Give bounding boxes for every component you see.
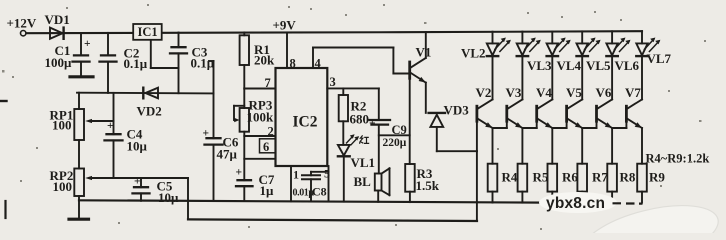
svg-text:VL6: VL6 <box>615 58 640 73</box>
svg-text:V5: V5 <box>566 85 582 100</box>
svg-text:0.1μ: 0.1μ <box>124 56 148 71</box>
svg-text:R5: R5 <box>533 170 549 185</box>
svg-text:R4~R9:1.2k: R4~R9:1.2k <box>646 152 710 166</box>
svg-text:100k: 100k <box>247 110 275 125</box>
svg-text:+: + <box>236 167 243 179</box>
svg-text:100: 100 <box>53 179 73 194</box>
svg-text:C8: C8 <box>312 185 327 199</box>
svg-text:VL2: VL2 <box>461 46 486 61</box>
svg-text:BL: BL <box>354 174 372 189</box>
svg-text:+: + <box>107 120 114 132</box>
svg-text:IC2: IC2 <box>293 114 318 131</box>
svg-text:VL4: VL4 <box>557 58 582 73</box>
svg-text:VL3: VL3 <box>527 58 552 73</box>
svg-text:+: + <box>369 118 376 130</box>
svg-text:6: 6 <box>263 140 269 154</box>
svg-text:V3: V3 <box>506 85 522 100</box>
svg-text:V4: V4 <box>536 85 552 100</box>
svg-text:1.5k: 1.5k <box>416 178 440 193</box>
svg-text:1: 1 <box>293 168 299 182</box>
svg-text:10μ: 10μ <box>127 139 148 154</box>
svg-text:+12V: +12V <box>7 16 37 31</box>
svg-text:R7: R7 <box>592 170 608 185</box>
svg-text:VL1: VL1 <box>351 155 376 170</box>
svg-text:R9: R9 <box>649 170 665 185</box>
svg-text:IC1: IC1 <box>138 25 158 39</box>
svg-text:+: + <box>134 176 141 188</box>
svg-text:100μ: 100μ <box>45 55 73 70</box>
svg-text:8: 8 <box>290 57 296 71</box>
svg-text:R6: R6 <box>562 170 578 185</box>
svg-text:220μ: 220μ <box>383 137 407 149</box>
svg-text:47μ: 47μ <box>217 147 238 162</box>
svg-text:1μ: 1μ <box>260 183 275 198</box>
svg-text:+9V: +9V <box>273 18 297 33</box>
svg-text:VD2: VD2 <box>137 104 162 119</box>
svg-text:VL7: VL7 <box>647 51 672 66</box>
svg-text:10μ: 10μ <box>158 190 179 205</box>
svg-text:VD3: VD3 <box>444 103 470 118</box>
svg-text:2: 2 <box>268 125 274 139</box>
svg-text:V7: V7 <box>625 85 641 100</box>
svg-text:0.1μ: 0.1μ <box>191 56 215 71</box>
svg-text:+: + <box>84 38 91 50</box>
svg-text:R8: R8 <box>620 170 636 185</box>
svg-text:VL5: VL5 <box>586 58 611 73</box>
svg-text:20k: 20k <box>254 53 275 68</box>
svg-text:R4: R4 <box>502 170 518 185</box>
svg-text:V6: V6 <box>596 85 612 100</box>
svg-text:100: 100 <box>52 118 72 133</box>
svg-text:ybx8.cn: ybx8.cn <box>546 195 605 212</box>
svg-text:3: 3 <box>330 75 336 89</box>
svg-text:V2: V2 <box>476 85 492 100</box>
svg-text:V1: V1 <box>416 45 432 60</box>
svg-text:VD1: VD1 <box>45 12 70 27</box>
svg-text:C9: C9 <box>392 123 407 137</box>
svg-text:7: 7 <box>265 76 271 90</box>
svg-text:680: 680 <box>350 112 370 127</box>
svg-text:+: + <box>203 128 210 140</box>
svg-text:4: 4 <box>315 57 322 71</box>
svg-text:5: 5 <box>324 167 330 181</box>
